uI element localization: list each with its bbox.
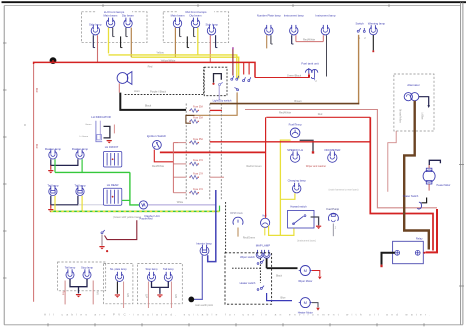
gauge fuel bbox=[290, 128, 300, 138]
frame tick right 2 bbox=[459, 164, 464, 166]
lamp rear LH stop bbox=[83, 269, 91, 279]
wire redA vertical gauges bbox=[265, 117, 267, 216]
wire horn to horn-push dashed bbox=[125, 67, 204, 94]
ground rear LH bbox=[76, 295, 81, 298]
wire fuse feeder vertical bbox=[172, 143, 174, 193]
svg-text:(instrument loom): (instrument loom) bbox=[297, 239, 316, 242]
fuse F2 bbox=[189, 120, 199, 124]
wire red bus from dot bbox=[52, 60, 54, 62]
svg-text:Tail lamp: Tail lamp bbox=[65, 266, 76, 270]
pin RH dip beam ground bbox=[194, 28, 196, 37]
wire RH side lamp feed red bbox=[209, 35, 211, 62]
pin RH main beam ground bbox=[180, 28, 182, 37]
wire tail L2 yellow drop bbox=[81, 196, 83, 212]
wire fuse4 in pink bbox=[173, 163, 186, 165]
gauge volt bbox=[261, 218, 270, 227]
svg-text:LH INDICATOR: LH INDICATOR bbox=[91, 115, 110, 119]
battery terminal mark bbox=[423, 252, 425, 254]
switch heater right bbox=[417, 202, 421, 209]
wire dip switch lavender stub bbox=[218, 86, 220, 100]
wire RH main beam feed brown bbox=[174, 28, 176, 58]
ground flasher row1 bbox=[50, 165, 52, 169]
switch light 1 bbox=[231, 76, 234, 80]
svg-text:Instrument lamp: Instrument lamp bbox=[315, 14, 335, 18]
svg-text:Fuel tank unit: Fuel tank unit bbox=[301, 62, 319, 66]
svg-text:No. plate lamp: No. plate lamp bbox=[110, 267, 127, 271]
lamp tail L2 bbox=[76, 186, 84, 196]
lamp instrument 2 bbox=[321, 25, 329, 35]
ground hazard bbox=[316, 226, 321, 229]
wire battery thick red leg bbox=[426, 209, 438, 252]
switch light 4 bbox=[248, 77, 251, 81]
svg-text:(Green with yellow trace): (Green with yellow trace) bbox=[113, 216, 141, 219]
svg-text:Green: Green bbox=[85, 123, 92, 126]
horn push lever bbox=[219, 82, 223, 85]
svg-text:(main harness to rear loom): (main harness to rear loom) bbox=[329, 188, 359, 191]
fuse F5 bbox=[189, 175, 199, 179]
svg-text:Red: Red bbox=[318, 113, 323, 116]
motor heater bbox=[299, 298, 312, 308]
wire dip switch feed tan bbox=[186, 92, 237, 115]
switch column heater bbox=[260, 286, 264, 290]
wire alternator blue out bbox=[419, 97, 429, 106]
wire RH box earth stub bbox=[187, 36, 189, 47]
ground np lamp bbox=[115, 295, 120, 298]
wire LH side lamp feed red bbox=[97, 35, 99, 62]
wire wiper dashes in box bbox=[232, 267, 261, 269]
lamp rear LH tail bbox=[66, 269, 74, 279]
frame tick bottom 6 bbox=[282, 323, 284, 326]
svg-text:Red/White: Red/White bbox=[279, 111, 292, 115]
ground heater motor bbox=[316, 308, 320, 311]
svg-text:Flasher lamp: Flasher lamp bbox=[45, 147, 62, 151]
battery terminal 1 bbox=[395, 250, 400, 255]
wire LH box earth stub bbox=[121, 36, 123, 47]
lamp LH dip beam bbox=[124, 18, 132, 28]
column switch enclosure bbox=[225, 253, 272, 304]
frame tick top 3 bbox=[292, 4, 294, 7]
wire sender red tick bbox=[308, 74, 310, 78]
svg-text:Fuel Pump: Fuel Pump bbox=[327, 207, 340, 211]
wire ignition out red down bbox=[154, 150, 173, 162]
frame tick bottom 2 bbox=[94, 323, 96, 326]
column dashed feed wire bbox=[225, 202, 227, 253]
svg-text:main earth point: main earth point bbox=[195, 304, 213, 307]
svg-text:G/P: G/P bbox=[144, 294, 147, 299]
wire rear LH link navy bbox=[70, 279, 87, 287]
LH front lamp enclosure bbox=[82, 12, 148, 43]
lamp RH main beam bbox=[173, 18, 181, 28]
hazard switch box bbox=[288, 210, 314, 228]
svg-text:Tail lamp: Tail lamp bbox=[47, 184, 58, 188]
ground rear RH bbox=[157, 295, 162, 298]
svg-text:Blue: Blue bbox=[280, 297, 286, 300]
svg-text:Red/Green: Red/Green bbox=[243, 236, 256, 239]
frame tick top 1 bbox=[102, 4, 104, 7]
svg-text:Heater switch: Heater switch bbox=[240, 281, 256, 285]
frame bottom border bbox=[4, 324, 463, 326]
svg-text:Heater Motor: Heater Motor bbox=[437, 184, 451, 187]
wire rear LH earth stub bbox=[78, 287, 80, 294]
lamp instrument 1 bbox=[290, 25, 298, 35]
gauge fuel pump bbox=[328, 213, 338, 222]
svg-text:Lt/Blue: Lt/Blue bbox=[421, 112, 424, 120]
svg-text:M: M bbox=[304, 268, 307, 273]
lamp RH side lamp bbox=[207, 25, 215, 35]
wire green stub up bbox=[219, 206, 221, 212]
fuse box right dashed edge bbox=[209, 104, 211, 200]
svg-text:Flasher lamp: Flasher lamp bbox=[72, 147, 89, 151]
svg-text:Dip beam: Dip beam bbox=[190, 14, 203, 18]
lamp RH dip beam bbox=[191, 18, 199, 28]
wire charging yellow link bbox=[280, 193, 295, 199]
wire green into block bbox=[122, 199, 130, 201]
wire flasher L1 green drop bbox=[54, 159, 56, 172]
svg-text:Alternator: Alternator bbox=[407, 83, 420, 87]
frame tick top 2 bbox=[197, 4, 199, 7]
wire redA right vertical bbox=[370, 117, 433, 250]
lamp tail L1 bbox=[49, 186, 57, 196]
wire rear LH feed maroon bbox=[92, 281, 94, 305]
frame tick bottom 4 bbox=[188, 323, 190, 326]
wire heater motor tail bbox=[312, 303, 318, 308]
motor wiper bbox=[299, 266, 312, 276]
svg-text:Red/White: Red/White bbox=[303, 37, 316, 41]
lamp warning bbox=[369, 25, 377, 35]
svg-text:Main beam: Main beam bbox=[171, 14, 186, 18]
lamp LH main beam bbox=[106, 18, 114, 28]
fuse F4 bbox=[189, 162, 199, 166]
wire warning lamp ground bbox=[372, 35, 374, 50]
wire heater feed blue bbox=[267, 293, 292, 301]
svg-text:MAP LAMP: MAP LAMP bbox=[256, 244, 271, 248]
ignition switch bbox=[153, 141, 162, 150]
ground battery bbox=[380, 265, 382, 268]
svg-text:R/B: R/B bbox=[126, 293, 129, 297]
pin instrument1 ground bbox=[292, 35, 294, 44]
switch column wiper bbox=[260, 260, 264, 264]
frame tick bottom 7 bbox=[329, 323, 331, 326]
svg-text:Number Plate lamp: Number Plate lamp bbox=[257, 14, 281, 18]
wire flasher row1 link navy bbox=[51, 159, 78, 165]
wire instrument lamp link red bbox=[296, 41, 323, 43]
svg-text:Brown/Yellow: Brown/Yellow bbox=[399, 109, 402, 123]
wire volt yellow stub2 bbox=[264, 228, 266, 236]
wire fuse5 in pink bbox=[173, 176, 186, 178]
wire alternator blue arrow bbox=[427, 105, 430, 108]
svg-text:Stop lamp: Stop lamp bbox=[81, 266, 94, 270]
wire maroon drop to light switch bbox=[232, 48, 234, 75]
wire rear RH feed pink 1 bbox=[147, 282, 149, 309]
svg-text:Fuel/Temp: Fuel/Temp bbox=[289, 122, 303, 126]
label LH front lamps bbox=[96, 10, 132, 15]
ground row2 bbox=[50, 205, 52, 209]
wire LH dip beam feed brown bbox=[130, 28, 132, 58]
frame tick left 2 bbox=[3, 89, 7, 91]
wire red drop to fuel line bbox=[255, 77, 309, 79]
flasher unit bbox=[139, 201, 147, 209]
wire battery earth black bbox=[382, 253, 395, 265]
fuse box left dashed edge bbox=[185, 104, 187, 200]
svg-text:M: M bbox=[304, 300, 307, 305]
frame tick bottom 3 bbox=[141, 323, 143, 326]
wire pink redwhite bus bbox=[245, 110, 437, 208]
svg-text:Red: Red bbox=[35, 144, 38, 149]
rear lamp enclosure LH bbox=[58, 262, 106, 291]
wire yellow bus dip beam bbox=[131, 57, 238, 78]
wire flasher unit lavender bbox=[148, 204, 216, 206]
svg-text:RPM Clock: RPM Clock bbox=[230, 212, 243, 215]
motor heater blower bbox=[423, 165, 435, 191]
svg-text:Purple / Black: Purple / Black bbox=[150, 89, 167, 93]
label RH front lamps bbox=[178, 10, 214, 15]
svg-text:LH REAR: LH REAR bbox=[107, 183, 119, 187]
wire red drop sw1 bbox=[243, 62, 245, 74]
wire interior ground blue bbox=[194, 255, 203, 299]
switch light 3 bbox=[243, 77, 246, 81]
wire rear RH link navy bbox=[152, 282, 169, 288]
fuse F3 bbox=[189, 141, 199, 145]
svg-text:Wiper and washer: Wiper and washer bbox=[306, 165, 326, 168]
battery box bbox=[393, 241, 424, 263]
svg-text:Red: Red bbox=[35, 88, 38, 93]
wire rear LH feed red bbox=[64, 281, 66, 305]
frame tick left 1 bbox=[3, 42, 7, 44]
frame right double border bbox=[460, 2, 462, 324]
svg-text:Switch: Switch bbox=[355, 21, 364, 25]
wire tail L1 yellow drop bbox=[54, 196, 56, 212]
svg-text:Hazard switch: Hazard switch bbox=[290, 205, 307, 209]
svg-text:Stop lamp: Stop lamp bbox=[145, 267, 158, 271]
svg-text:Red: Red bbox=[61, 291, 64, 296]
wire wiper feed black bbox=[267, 267, 298, 269]
svg-text:SPEEDO LH: SPEEDO LH bbox=[287, 148, 303, 152]
svg-text:Heater Switch: Heater Switch bbox=[403, 195, 419, 198]
svg-text:Warning lamp: Warning lamp bbox=[368, 21, 386, 25]
pin RH side lamp ground bbox=[216, 35, 218, 47]
gauge odometer bbox=[328, 151, 337, 162]
wire alternator brown main bbox=[404, 101, 429, 250]
lamp number plate bbox=[265, 25, 273, 35]
junction feed dot bbox=[50, 57, 57, 64]
wire fuse6 in pink bbox=[173, 192, 186, 194]
svg-text:Yellow: Yellow bbox=[156, 51, 164, 55]
fuel tank sender bbox=[305, 68, 317, 79]
pin LH dip beam ground bbox=[126, 28, 128, 37]
wire row2 link navy bbox=[51, 196, 78, 205]
wire ignition out red right bbox=[160, 151, 266, 153]
switch panel lamps bbox=[357, 28, 361, 32]
wire rpm stub tan bbox=[237, 228, 239, 237]
wire fuse3 in pink bbox=[178, 142, 186, 144]
pin LH main beam ground bbox=[113, 28, 115, 37]
svg-text:Side lamp: Side lamp bbox=[89, 23, 102, 27]
lamp LH side lamp bbox=[91, 25, 99, 35]
drawing frame top thick edge bbox=[2, 1, 467, 3]
svg-text:Purple/Red: Purple/Red bbox=[140, 217, 154, 221]
wire volt red link bbox=[265, 213, 267, 218]
wire rear RH earth stub bbox=[159, 287, 161, 293]
wire brown main bus bbox=[210, 103, 359, 105]
wire LH main beam feed yellow bbox=[108, 28, 110, 54]
wire green bus row1 bbox=[55, 171, 130, 173]
wire instrument1 link drop bbox=[295, 35, 297, 41]
frame tick left 4 bbox=[3, 183, 7, 185]
gauge rpm bbox=[233, 217, 243, 224]
lamp number plate rear bbox=[115, 272, 123, 282]
svg-text:Lt Green: Lt Green bbox=[80, 135, 89, 138]
wire number plate feed tan bbox=[266, 35, 268, 48]
wire interior feed blue bbox=[208, 190, 216, 262]
wire rear RH feed pink 2 bbox=[170, 282, 172, 309]
switch dip lever bbox=[234, 88, 238, 91]
wire horn red tick bbox=[118, 83, 120, 92]
svg-text:Wiper Motor: Wiper Motor bbox=[298, 279, 312, 283]
ground indicator unit bbox=[107, 141, 112, 144]
number plate lamp enclosure bbox=[104, 263, 133, 303]
svg-text:Black: Black bbox=[276, 274, 283, 277]
svg-text:Tail lamp: Tail lamp bbox=[163, 267, 174, 271]
lamp map 2 bbox=[263, 250, 270, 258]
lamp charging bbox=[293, 183, 301, 193]
lamp rear RH stop bbox=[148, 272, 156, 282]
svg-text:Horn: Horn bbox=[134, 89, 140, 93]
svg-text:Red/Lt Green: Red/Lt Green bbox=[246, 165, 262, 168]
frame tick right bbox=[459, 285, 464, 287]
wire red drop sw2 bbox=[248, 62, 250, 74]
frame tick bottom 8 bbox=[376, 323, 378, 326]
frame tick left 3 bbox=[3, 136, 7, 138]
svg-text:Interior lamp: Interior lamp bbox=[196, 242, 212, 246]
wire map lamp black drop bbox=[266, 258, 268, 268]
frame tick top 4 bbox=[388, 4, 390, 7]
wire starter navy link bbox=[429, 160, 440, 165]
wire np lamp feed pink bbox=[123, 282, 125, 309]
wire np lamp ground stub bbox=[116, 282, 118, 294]
pin number plate ground bbox=[271, 35, 273, 44]
svg-text:Green/Black: Green/Black bbox=[287, 73, 302, 77]
frame tick bottom 5 bbox=[235, 323, 237, 326]
svg-text:Ignition Switch: Ignition Switch bbox=[147, 134, 167, 138]
drawing frame inner border bbox=[4, 5, 460, 7]
connector block LH rear bbox=[103, 188, 121, 205]
alternator enclosure bbox=[394, 74, 434, 131]
lamp flasher L2 bbox=[76, 149, 84, 159]
svg-text:Instrument lamp: Instrument lamp bbox=[284, 14, 304, 18]
svg-text:Fuse 17A: Fuse 17A bbox=[193, 159, 203, 162]
wire fuel pump stub bbox=[332, 224, 334, 237]
svg-text:Fuse 35A: Fuse 35A bbox=[193, 138, 203, 141]
wire volt yellow link bbox=[269, 226, 294, 236]
lamp rear RH tail bbox=[164, 272, 172, 282]
svg-text:Fuse 35A: Fuse 35A bbox=[193, 106, 203, 109]
wire heater switch black link bbox=[421, 198, 426, 203]
wire fuse1 out red bbox=[210, 109, 222, 111]
wire maroon run bbox=[105, 220, 137, 239]
battery terminal 2 bbox=[415, 250, 420, 255]
fuse F6 bbox=[189, 191, 199, 195]
switch pilot bbox=[101, 230, 105, 234]
wire instrument2 feed dark bbox=[326, 35, 328, 76]
wire fuse3 feeder stub bbox=[173, 142, 178, 144]
lamp map 1 bbox=[256, 250, 263, 258]
junction maroon dot bbox=[106, 250, 108, 252]
indicator unit pins bbox=[96, 121, 102, 142]
ground pilot switch bbox=[101, 235, 103, 246]
wire green down link bbox=[130, 172, 139, 205]
svg-text:R/B: R/B bbox=[174, 294, 177, 298]
wire yellow gauge drop bbox=[280, 140, 290, 235]
wire map lamp dashed drop bbox=[259, 258, 261, 283]
lamp flasher L1 bbox=[49, 149, 57, 159]
svg-text:Brown: Brown bbox=[294, 99, 302, 103]
svg-text:Main beam: Main beam bbox=[103, 14, 118, 18]
connector block LH front bbox=[103, 152, 121, 168]
wire yellow bus main beam bbox=[109, 55, 237, 78]
svg-text:Black: Black bbox=[145, 103, 152, 107]
gauge speedo bbox=[291, 151, 300, 162]
wire fuel gauge slate link bbox=[300, 140, 313, 151]
wire redA horizontal bbox=[266, 116, 370, 118]
horn bbox=[117, 72, 132, 85]
svg-text:Relay: Relay bbox=[416, 236, 423, 240]
svg-text:White: White bbox=[177, 201, 184, 204]
wire alternator pink bbox=[388, 131, 396, 192]
svg-text:Dip beam: Dip beam bbox=[122, 14, 135, 18]
frame tick bottom 1 bbox=[47, 323, 49, 326]
wire hazard slate link bbox=[311, 217, 319, 225]
svg-text:R: R bbox=[24, 124, 26, 127]
frame tick left 6 bbox=[3, 277, 7, 279]
lamp interior bbox=[200, 245, 209, 255]
svg-text:Red/White: Red/White bbox=[152, 164, 165, 168]
svg-text:Red: Red bbox=[148, 64, 153, 68]
wire fuse5 out pink bbox=[210, 176, 224, 178]
wire LH side lamp ground pin bbox=[93, 35, 95, 47]
svg-text:Fuse 17A: Fuse 17A bbox=[193, 172, 203, 175]
indicator unit link black bbox=[104, 126, 110, 137]
wire RH dip beam feed yellow bbox=[197, 28, 199, 55]
alternator symbol bbox=[404, 93, 419, 101]
svg-text:Light/Dip switch: Light/Dip switch bbox=[213, 98, 232, 102]
wire fuse2 brown bracket bbox=[186, 115, 195, 123]
ground fuel gauge red tip bbox=[312, 151, 314, 153]
frame left border bbox=[3, 6, 5, 325]
svg-text:Fuse 17A: Fuse 17A bbox=[193, 188, 203, 191]
fuse F1 bbox=[189, 109, 199, 113]
svg-text:Fuse 35A: Fuse 35A bbox=[193, 117, 203, 120]
fuse box lower dashed edge bbox=[220, 104, 222, 200]
pin sender 2 bbox=[314, 77, 316, 80]
wire redB thick feed bbox=[210, 141, 370, 143]
wire main red bus bbox=[34, 62, 255, 77]
rear lamp enclosure RH bbox=[137, 263, 182, 303]
wire row2 light link bbox=[78, 204, 104, 206]
wire left red feeder bbox=[33, 64, 35, 302]
svg-text:LH FRONT: LH FRONT bbox=[105, 145, 119, 149]
RH front lamp enclosure bbox=[163, 12, 229, 43]
wire indicator red tick bbox=[113, 125, 115, 134]
ground wiper motor bbox=[318, 277, 322, 280]
wire green-yellow trace bus bbox=[51, 210, 220, 212]
svg-text:Side lamp: Side lamp bbox=[205, 23, 218, 27]
wire switch feed tan bbox=[358, 35, 360, 105]
svg-text:Charging lamp: Charging lamp bbox=[288, 178, 307, 182]
svg-text:ODOMETER: ODOMETER bbox=[324, 148, 340, 152]
horn push enclosure bbox=[204, 67, 227, 96]
svg-text:Wiper switch: Wiper switch bbox=[240, 255, 255, 259]
svg-text:P/R: P/R bbox=[95, 291, 98, 295]
